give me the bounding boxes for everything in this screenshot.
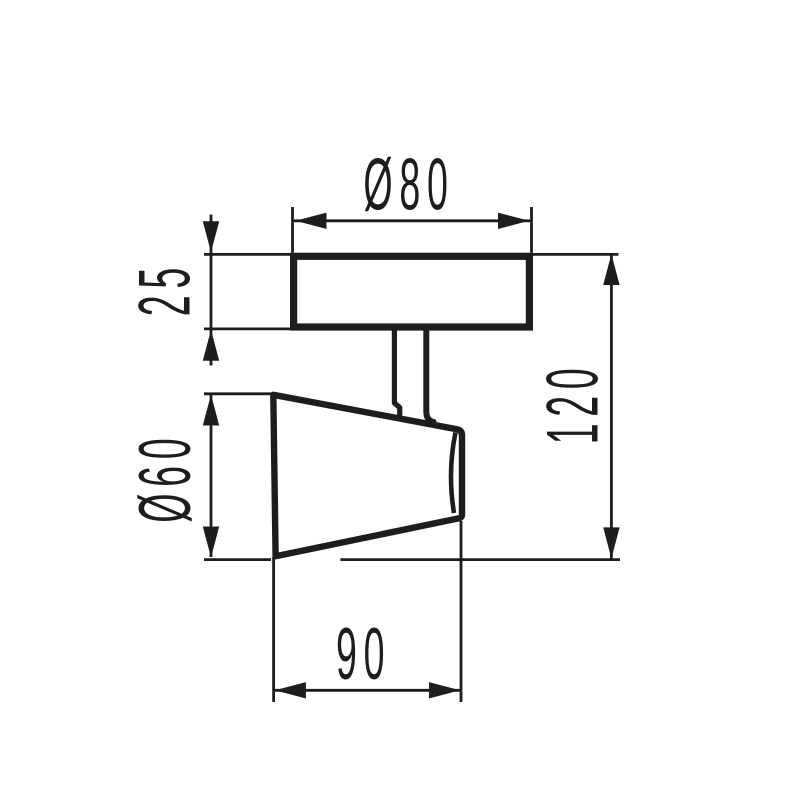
- stem interior: [397, 327, 424, 418]
- dim ext line 90 left: [272, 557, 275, 702]
- base plate rectangle: [294, 256, 530, 327]
- dim line 120: [610, 255, 613, 559]
- dim ext line 120 bottom: [340, 558, 620, 561]
- arrow O80 right: [498, 213, 529, 229]
- dim ext line O60 top: [204, 392, 271, 395]
- dim ext line 90 right: [460, 521, 463, 702]
- svg-text:90: 90: [336, 614, 391, 696]
- arrow O60 bottom: [203, 527, 219, 558]
- dim line O60: [210, 395, 213, 557]
- dim ext line O80 right: [530, 207, 533, 253]
- svg-text:25: 25: [124, 261, 206, 316]
- arrow 90 left: [275, 682, 306, 698]
- dim ext line top shared (25 / 120): [204, 253, 619, 256]
- stem left edge: [394, 327, 399, 416]
- arrow 25 top: [203, 221, 219, 252]
- lens inner curve: [451, 433, 456, 514]
- stem right edge: [426, 327, 433, 422]
- svg-text:120: 120: [532, 362, 614, 445]
- dim line 90: [275, 689, 460, 692]
- arrow O80 left: [296, 213, 327, 229]
- dim line O80: [294, 219, 530, 222]
- arrow 90 right: [429, 682, 460, 698]
- svg-text:Ø80: Ø80: [363, 144, 454, 226]
- dim ext line O60 bottom: [204, 558, 271, 561]
- arrow 120 bottom: [603, 527, 619, 558]
- dim ext line O80 left: [291, 207, 294, 253]
- cone lamp head: [273, 395, 462, 556]
- arrow O60 top: [203, 395, 219, 426]
- dim ext line 25 bottom: [204, 327, 290, 330]
- dim line 25: [210, 215, 213, 366]
- arrow 120 top: [603, 254, 619, 285]
- arrow 25 bottom: [203, 330, 219, 361]
- svg-text:Ø60: Ø60: [125, 432, 207, 523]
